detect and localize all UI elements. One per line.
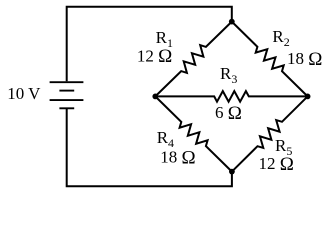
wire battery top to top node [67,7,232,82]
battery V1 plate short [59,90,74,92]
svg-text:12 Ω: 12 Ω [137,46,172,67]
node bottom junction dot [229,169,235,175]
battery V1 plate long [50,99,84,101]
battery V1 plate long top [50,81,84,83]
svg-text:18 Ω: 18 Ω [287,49,322,70]
resistor R4 [155,96,232,171]
svg-text:6 Ω: 6 Ω [215,103,242,124]
svg-text:10 V: 10 V [7,84,41,103]
node top junction dot [229,19,235,25]
resistor R2 [232,22,308,97]
wire battery bottom to bottom node [67,108,232,186]
battery V1 plate short bottom [59,107,74,109]
resistor R1 [155,22,232,97]
svg-text:18 Ω: 18 Ω [160,147,195,168]
svg-text:R3: R3 [220,64,237,86]
resistor R5 [232,96,308,171]
node right junction dot [305,94,311,100]
svg-text:12 Ω: 12 Ω [259,154,294,175]
resistor R3 [155,91,307,102]
node left junction dot [152,94,158,100]
svg-text:R2: R2 [272,27,289,49]
